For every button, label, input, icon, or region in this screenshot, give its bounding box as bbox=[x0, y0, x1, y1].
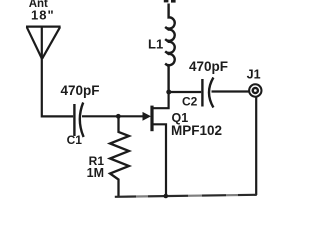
antenna ANT1 bbox=[26, 27, 61, 59]
svg-text:18": 18" bbox=[31, 7, 55, 22]
node source junction bbox=[164, 194, 169, 199]
svg-text:MPF102: MPF102 bbox=[171, 123, 222, 138]
svg-text:470pF: 470pF bbox=[60, 83, 99, 98]
node gate junction bbox=[116, 114, 121, 119]
wire C2 to J1 bbox=[212, 90, 250, 92]
wire antenna to C1 bbox=[42, 58, 73, 116]
wire drain node to C2 bbox=[169, 91, 201, 93]
capacitor C2 bbox=[202, 78, 213, 108]
svg-text:470pF: 470pF bbox=[189, 59, 228, 74]
wire J1 to ground rail bbox=[255, 97, 257, 195]
wire C1 to gate node bbox=[82, 115, 120, 117]
node drain junction bbox=[166, 90, 171, 95]
wire gate node to Q1 gate bbox=[118, 115, 144, 117]
svg-text:J1: J1 bbox=[247, 67, 261, 81]
inductor L1 bbox=[165, 4, 174, 93]
capacitor C1 bbox=[74, 103, 83, 138]
resistor R1 bbox=[110, 116, 129, 196]
svg-text:1M: 1M bbox=[87, 166, 104, 180]
svg-text:L1: L1 bbox=[148, 37, 163, 52]
transistor Q1 (JFET) bbox=[143, 92, 169, 196]
wire fade artifacts on ground rail bbox=[136, 192, 238, 199]
connector J1 bbox=[249, 84, 261, 96]
svg-text:C1: C1 bbox=[67, 133, 83, 147]
wire ground rail bbox=[115, 195, 257, 197]
svg-text:C2: C2 bbox=[182, 95, 198, 109]
power stub marks (cut-off label at top) bbox=[164, 0, 169, 2]
